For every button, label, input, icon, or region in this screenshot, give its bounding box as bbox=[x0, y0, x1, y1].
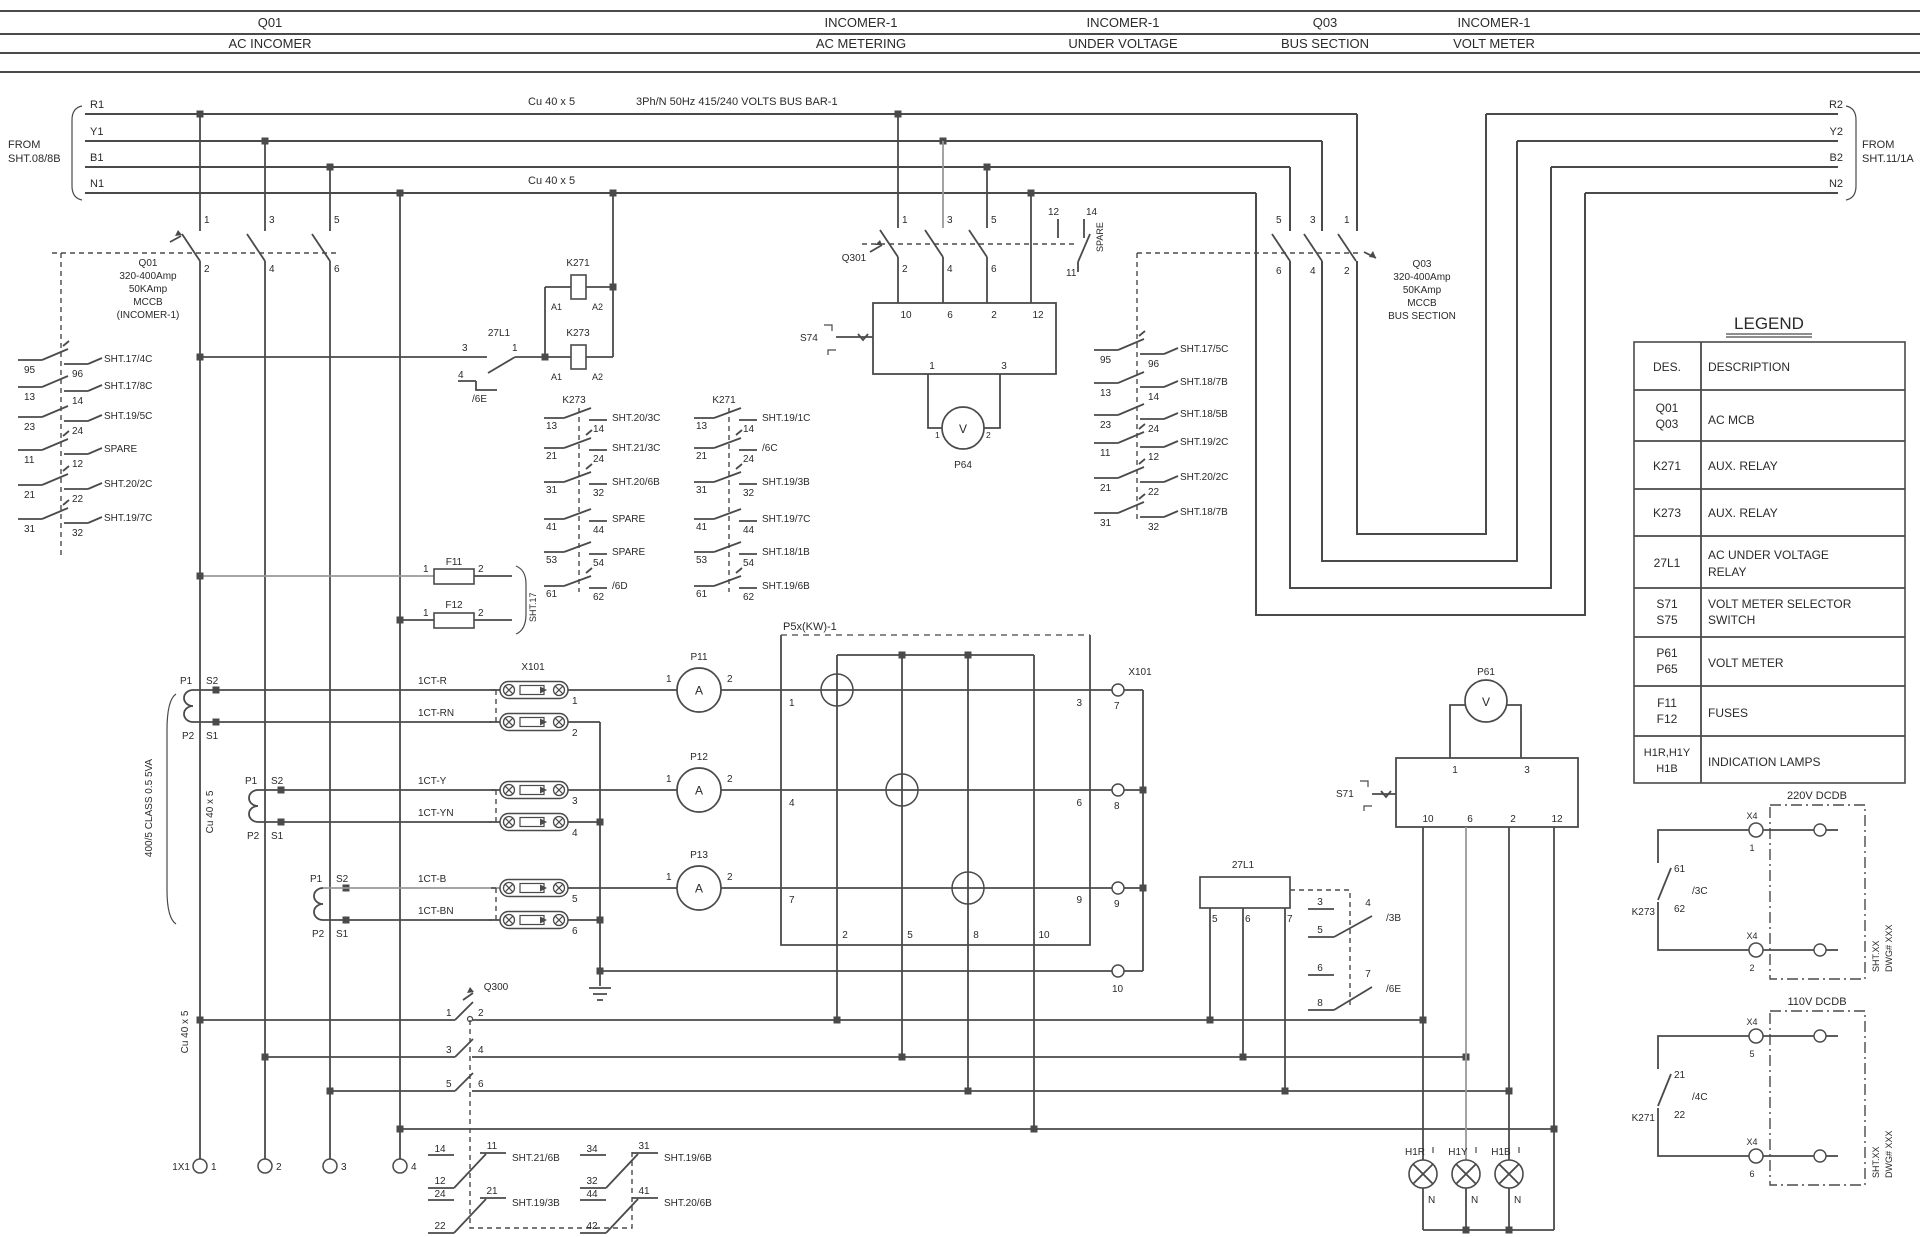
wire: P5x drop 5 bbox=[901, 655, 903, 1057]
svg-text:11: 11 bbox=[24, 455, 35, 466]
svg-text:3: 3 bbox=[1076, 698, 1082, 709]
wire: phase R through P5x bbox=[721, 689, 1112, 691]
svg-text:1CT-R: 1CT-R bbox=[418, 676, 447, 687]
svg-text:Q01: Q01 bbox=[1656, 401, 1679, 415]
svg-text:12: 12 bbox=[1048, 207, 1060, 218]
wire: bus Y2 bbox=[1517, 140, 1838, 142]
node: bus tap junction bbox=[984, 164, 991, 171]
svg-text:S71: S71 bbox=[1336, 789, 1354, 800]
svg-text:9: 9 bbox=[1114, 899, 1120, 910]
svg-text:27L1: 27L1 bbox=[1232, 860, 1255, 871]
svg-text:1: 1 bbox=[929, 361, 935, 372]
svg-text:1: 1 bbox=[572, 696, 578, 707]
svg-text:400/5 CLASS 0.5 5VA: 400/5 CLASS 0.5 5VA bbox=[144, 759, 155, 858]
svg-text:INCOMER-1: INCOMER-1 bbox=[825, 15, 898, 30]
node: bus junction bbox=[834, 1017, 841, 1024]
svg-text:32: 32 bbox=[743, 488, 755, 499]
svg-text:12: 12 bbox=[1551, 814, 1563, 825]
svg-text:X4: X4 bbox=[1746, 811, 1757, 821]
svg-text:24: 24 bbox=[72, 426, 84, 437]
breaker Q01 pole 1-2 blade bbox=[182, 234, 200, 261]
lamp H1R bbox=[1405, 1147, 1437, 1230]
svg-text:61: 61 bbox=[1674, 864, 1686, 875]
node: CT group bracket bbox=[167, 694, 176, 924]
switch: 27L1 undervoltage contact bbox=[458, 328, 518, 405]
node: bus junction bbox=[1207, 1017, 1214, 1024]
svg-text:BUS SECTION: BUS SECTION bbox=[1388, 311, 1456, 322]
svg-text:4: 4 bbox=[789, 798, 795, 809]
node: fuse output bracket to SHT.17 bbox=[516, 566, 526, 634]
svg-text:4: 4 bbox=[572, 828, 578, 839]
svg-text:24: 24 bbox=[434, 1189, 446, 1200]
svg-text:220V DCDB: 220V DCDB bbox=[1787, 790, 1847, 802]
wire: bus N2 bbox=[1585, 192, 1838, 194]
wire: phase Y through P5x bbox=[721, 789, 1112, 791]
svg-text:5: 5 bbox=[991, 215, 997, 226]
node: S71 handle bbox=[1336, 781, 1396, 811]
wire: N drop to S74 box bbox=[1030, 193, 1032, 303]
svg-text:P1: P1 bbox=[310, 874, 323, 885]
svg-text:/4C: /4C bbox=[1692, 1092, 1708, 1103]
svg-text:12: 12 bbox=[1032, 310, 1044, 321]
svg-text:SHT.17/8C: SHT.17/8C bbox=[104, 381, 152, 392]
wire: bottom bus Y bbox=[265, 1056, 1466, 1058]
svg-text:V: V bbox=[1482, 695, 1490, 709]
node: bus tap junction bbox=[262, 138, 269, 145]
svg-text:K271: K271 bbox=[1632, 1113, 1656, 1124]
svg-text:F11: F11 bbox=[446, 557, 463, 568]
switch: K271 contact 13-14 bbox=[694, 408, 810, 435]
svg-text:FUSES: FUSES bbox=[1708, 706, 1748, 720]
svg-text:P61: P61 bbox=[1477, 667, 1495, 678]
svg-text:FROM: FROM bbox=[1862, 139, 1894, 151]
wire: 1CT-Y secondary S2 bbox=[258, 789, 500, 791]
fuse F11 bbox=[423, 557, 512, 584]
node: bus junction bbox=[262, 1054, 269, 1061]
svg-text:13: 13 bbox=[1100, 388, 1112, 399]
svg-text:SHT.19/7C: SHT.19/7C bbox=[762, 514, 810, 525]
svg-text:1: 1 bbox=[423, 608, 429, 619]
terminal 1X1-3 bbox=[323, 1159, 347, 1173]
svg-text:6: 6 bbox=[1749, 1169, 1754, 1179]
wire: bottom bus R bbox=[200, 1019, 1423, 1021]
switch Q300 pole 1-2 bbox=[455, 1002, 473, 1020]
wire: 27L1 pin 6 bbox=[1242, 908, 1244, 1057]
svg-text:1: 1 bbox=[204, 215, 210, 226]
svg-text:MCCB: MCCB bbox=[1407, 298, 1437, 309]
svg-text:4: 4 bbox=[411, 1162, 417, 1173]
svg-text:14: 14 bbox=[72, 396, 84, 407]
svg-text:3: 3 bbox=[1524, 765, 1530, 776]
wire: Q301 pole drops bbox=[897, 114, 899, 228]
node: bus tap junction bbox=[895, 111, 902, 118]
svg-text:8: 8 bbox=[973, 930, 979, 941]
svg-text:SHT.17/4C: SHT.17/4C bbox=[104, 354, 152, 365]
wire: S71 pin10 drop bbox=[1422, 827, 1424, 1160]
svg-text:RELAY: RELAY bbox=[1708, 565, 1746, 579]
svg-text:/6D: /6D bbox=[612, 581, 628, 592]
svg-text:N2: N2 bbox=[1829, 178, 1843, 190]
svg-text:N: N bbox=[1471, 1195, 1478, 1206]
svg-text:10: 10 bbox=[1422, 814, 1434, 825]
svg-text:53: 53 bbox=[696, 555, 708, 566]
fuse terminal X101-4 bbox=[500, 814, 578, 840]
wire: CT/meter common bus bbox=[600, 970, 1143, 972]
svg-text:A2: A2 bbox=[592, 372, 603, 382]
svg-text:SHT.18/7B: SHT.18/7B bbox=[1180, 507, 1228, 518]
svg-text:2: 2 bbox=[986, 430, 991, 440]
svg-text:21: 21 bbox=[696, 451, 708, 462]
wire: bottom bus B bbox=[330, 1090, 1509, 1092]
svg-text:F12: F12 bbox=[1657, 712, 1678, 726]
svg-text:S71: S71 bbox=[1656, 597, 1678, 611]
svg-text:P64: P64 bbox=[954, 460, 972, 471]
svg-text:4: 4 bbox=[478, 1045, 484, 1056]
node: bus junction bbox=[1282, 1088, 1289, 1095]
wire: Q01 pole R drop bbox=[199, 114, 201, 231]
switch: Q300 aux contact 34-31 bbox=[580, 1141, 712, 1188]
wire: contact to X4-6 bbox=[1658, 1108, 1749, 1156]
svg-text:N: N bbox=[1428, 1195, 1435, 1206]
wire: phase B through P5x bbox=[721, 887, 1112, 889]
svg-text:2: 2 bbox=[991, 310, 997, 321]
switch: K273 contact 31-32 bbox=[544, 464, 660, 499]
node: legend row bbox=[1654, 548, 1829, 579]
node: FROM SHT.11/1A bbox=[1862, 139, 1914, 165]
wire: P5x drop 10 bbox=[1033, 655, 1035, 1129]
selector switch S74 box bbox=[873, 303, 1056, 374]
svg-text:R2: R2 bbox=[1829, 99, 1843, 111]
svg-text:K273: K273 bbox=[562, 395, 586, 406]
svg-text:6: 6 bbox=[1076, 798, 1082, 809]
svg-text:SPARE: SPARE bbox=[612, 547, 645, 558]
wire: N phase vertical bbox=[399, 193, 401, 1159]
svg-text:H1R: H1R bbox=[1405, 1147, 1425, 1158]
switch: K271 contact 53-54 bbox=[694, 542, 810, 569]
svg-text:SHT.17: SHT.17 bbox=[528, 592, 538, 622]
svg-text:8: 8 bbox=[1114, 801, 1120, 812]
svg-text:11: 11 bbox=[1066, 268, 1077, 279]
ammeter P13 bbox=[568, 850, 733, 910]
wire: X4-5 leads bbox=[1658, 1036, 1749, 1069]
svg-text:(INCOMER-1): (INCOMER-1) bbox=[117, 310, 180, 321]
svg-text:7: 7 bbox=[789, 895, 795, 906]
switch: Q01 aux contact 95-96 bbox=[18, 341, 152, 380]
svg-text:27L1: 27L1 bbox=[1654, 556, 1681, 570]
svg-text:32: 32 bbox=[72, 528, 84, 539]
svg-text:X101: X101 bbox=[1128, 667, 1152, 678]
svg-text:1: 1 bbox=[935, 430, 940, 440]
svg-text:7: 7 bbox=[1114, 701, 1120, 712]
svg-text:S1: S1 bbox=[206, 731, 219, 742]
svg-text:44: 44 bbox=[593, 525, 605, 536]
svg-text:95: 95 bbox=[24, 365, 36, 376]
node: legend row bbox=[1653, 459, 1778, 473]
svg-text:3: 3 bbox=[462, 343, 468, 354]
svg-text:N1: N1 bbox=[90, 178, 104, 190]
svg-text:32: 32 bbox=[586, 1176, 598, 1187]
node: Q01 rating label bbox=[117, 258, 180, 321]
wire: 1CT-R secondary S2 bbox=[193, 689, 500, 691]
switch: Q300 aux contact 44-41 bbox=[580, 1186, 712, 1233]
switch: Q01 aux contact 13-14 bbox=[18, 376, 152, 407]
svg-text:6: 6 bbox=[1276, 266, 1282, 277]
svg-text:5: 5 bbox=[1317, 925, 1323, 936]
svg-text:1CT-B: 1CT-B bbox=[418, 874, 447, 885]
node: bus junction bbox=[327, 1088, 334, 1095]
wire: Y phase vertical bbox=[264, 261, 266, 1159]
svg-text:22: 22 bbox=[72, 494, 84, 505]
fuse terminal X101-3 bbox=[500, 782, 578, 808]
fuse terminal X101-1 bbox=[500, 682, 578, 708]
switch: K271 contact 21-24 bbox=[694, 430, 778, 465]
svg-text:6: 6 bbox=[572, 926, 578, 937]
switch: K273 contact 21-24 bbox=[544, 430, 660, 465]
wire: X101 meter common vertical bbox=[1142, 690, 1144, 971]
wire: 1CT-Y secondary S1 bbox=[258, 821, 500, 823]
svg-text:VOLT METER: VOLT METER bbox=[1453, 36, 1535, 51]
terminal X101-8 bbox=[1112, 784, 1143, 812]
svg-text:S1: S1 bbox=[336, 929, 349, 940]
node: legend row bbox=[1656, 597, 1851, 627]
wire: R phase vertical bbox=[199, 261, 201, 1159]
svg-text:/3C: /3C bbox=[1692, 886, 1708, 897]
svg-text:62: 62 bbox=[1674, 904, 1686, 915]
switch: 27L1 contact 6-8/7 bbox=[1308, 963, 1401, 1010]
svg-text:10: 10 bbox=[1038, 930, 1050, 941]
svg-text:P2: P2 bbox=[182, 731, 195, 742]
svg-text:6: 6 bbox=[947, 310, 953, 321]
node: junction R/357 bbox=[197, 354, 204, 361]
svg-text:31: 31 bbox=[1100, 518, 1112, 529]
svg-text:12: 12 bbox=[72, 459, 84, 470]
breaker Q03 blades bbox=[1272, 234, 1290, 261]
svg-text:P65: P65 bbox=[1656, 662, 1678, 676]
svg-text:96: 96 bbox=[72, 369, 84, 380]
svg-text:6: 6 bbox=[1467, 814, 1473, 825]
svg-text:F11: F11 bbox=[1657, 696, 1677, 710]
svg-text:24: 24 bbox=[1148, 424, 1160, 435]
wire: 27L1 contact to K273 bbox=[515, 356, 571, 358]
svg-text:34: 34 bbox=[586, 1144, 598, 1155]
wire: R1 through Q03 pole 1 and U-turn to R2 bbox=[1356, 114, 1358, 231]
svg-text:SHT.19/1C: SHT.19/1C bbox=[762, 413, 810, 424]
svg-text:62: 62 bbox=[593, 592, 605, 603]
wire: P5x inner top link bbox=[837, 654, 1034, 656]
svg-text:14: 14 bbox=[1086, 207, 1098, 218]
node: legend row bbox=[1644, 747, 1821, 775]
svg-text:6: 6 bbox=[1317, 963, 1323, 974]
svg-text:LEGEND: LEGEND bbox=[1734, 314, 1804, 333]
svg-text:5: 5 bbox=[1212, 914, 1218, 925]
svg-text:INCOMER-1: INCOMER-1 bbox=[1087, 15, 1160, 30]
svg-text:/6E: /6E bbox=[1386, 984, 1401, 995]
svg-text:1CT-BN: 1CT-BN bbox=[418, 906, 454, 917]
svg-text:SHT.19/6B: SHT.19/6B bbox=[664, 1153, 712, 1164]
svg-text:Cu 40 x 5: Cu 40 x 5 bbox=[180, 1010, 191, 1053]
svg-text:2: 2 bbox=[1510, 814, 1516, 825]
terminal X101-7 bbox=[1112, 684, 1143, 712]
svg-text:1X1: 1X1 bbox=[172, 1162, 190, 1173]
svg-text:31: 31 bbox=[638, 1141, 650, 1152]
svg-text:FROM: FROM bbox=[8, 139, 40, 151]
wire: bus B1 bbox=[85, 166, 1290, 168]
svg-text:6: 6 bbox=[334, 264, 340, 275]
node: bus junction bbox=[1506, 1088, 1513, 1095]
wire: lamp neutral return bbox=[1423, 1229, 1554, 1231]
wire: S71 pin2 drop bbox=[1508, 827, 1510, 1160]
svg-text:320-400Amp: 320-400Amp bbox=[1393, 272, 1451, 283]
svg-text:A: A bbox=[695, 684, 703, 698]
svg-text:DES.: DES. bbox=[1653, 360, 1681, 374]
switch: K273 contact 61-62 bbox=[544, 568, 628, 603]
svg-text:14: 14 bbox=[434, 1144, 446, 1155]
svg-text:1: 1 bbox=[902, 215, 908, 226]
switch: K271 contact 31-32 bbox=[694, 464, 810, 499]
wire: 1CT-B secondary S1 bbox=[323, 919, 500, 921]
svg-text:P2: P2 bbox=[312, 929, 325, 940]
svg-text:Y1: Y1 bbox=[90, 126, 103, 138]
switch: K271 contact 21-22 bbox=[1632, 1070, 1708, 1124]
svg-text:SHT.20/3C: SHT.20/3C bbox=[612, 413, 660, 424]
svg-text:/6C: /6C bbox=[762, 443, 778, 454]
svg-text:4: 4 bbox=[458, 370, 464, 381]
svg-text:6: 6 bbox=[478, 1079, 484, 1090]
wire: 1CT-R secondary S1 bbox=[193, 721, 500, 723]
wire: 27L1 pin 5 bbox=[1209, 908, 1211, 1020]
svg-text:AC INCOMER: AC INCOMER bbox=[228, 36, 311, 51]
svg-text:SHT.XX: SHT.XX bbox=[1871, 1146, 1881, 1178]
wire: P5x drop 2 bbox=[836, 655, 838, 1020]
svg-text:SHT.20/6B: SHT.20/6B bbox=[664, 1198, 712, 1209]
svg-text:AC METERING: AC METERING bbox=[816, 36, 906, 51]
node: junction 613/287 bbox=[610, 284, 617, 291]
svg-text:53: 53 bbox=[546, 555, 558, 566]
terminal X4-2 bbox=[1746, 931, 1763, 973]
node: bus junction bbox=[965, 1088, 972, 1095]
wire: header rule 2 bbox=[0, 33, 1920, 35]
node: bus junction bbox=[1240, 1054, 1247, 1061]
switch: Q03 aux contact 21-22 bbox=[1094, 459, 1228, 498]
svg-text:5: 5 bbox=[907, 930, 913, 941]
wire: header rule 3 bbox=[0, 52, 1920, 54]
wire: Y1 through Q03 pole 3 and U-turn to Y2 bbox=[1321, 141, 1323, 231]
switch: Q03 aux contact 95-96 bbox=[1094, 331, 1228, 370]
node: P5x pin numbers bbox=[789, 698, 795, 906]
wire: X101 pair bracket bbox=[489, 690, 496, 722]
svg-text:SHT.18/1B: SHT.18/1B bbox=[762, 547, 810, 558]
switch: 27L1 contact 3-5/4 bbox=[1308, 897, 1401, 937]
wire: bus Y1 bbox=[85, 140, 1322, 142]
wire: S71 pin12 drop to N bbox=[1553, 827, 1555, 1230]
svg-text:61: 61 bbox=[696, 589, 708, 600]
svg-text:24: 24 bbox=[593, 454, 605, 465]
svg-text:12: 12 bbox=[434, 1176, 446, 1187]
svg-text:10: 10 bbox=[900, 310, 912, 321]
svg-text:SHT.17/5C: SHT.17/5C bbox=[1180, 344, 1228, 355]
svg-text:S2: S2 bbox=[206, 676, 219, 687]
switch: Q300 aux contact 24-21 bbox=[428, 1186, 560, 1233]
node: Q01 pole terminal numbers bbox=[204, 215, 340, 275]
svg-text:A: A bbox=[695, 784, 703, 798]
wire: R phase to 27L1 contact bbox=[200, 356, 487, 358]
svg-text:2: 2 bbox=[842, 930, 848, 941]
switch: Q03 aux contact 11-12 bbox=[1094, 424, 1228, 463]
switch: K273 contact 53-54 bbox=[544, 542, 645, 569]
svg-text:P12: P12 bbox=[690, 752, 708, 763]
wire: bus B2 bbox=[1551, 166, 1838, 168]
svg-text:H1Y: H1Y bbox=[1448, 1147, 1468, 1158]
node: bus junction bbox=[197, 1017, 204, 1024]
svg-text:23: 23 bbox=[24, 422, 36, 433]
relay coil K273 bbox=[551, 328, 613, 382]
svg-text:41: 41 bbox=[546, 522, 558, 533]
svg-text:6: 6 bbox=[1245, 914, 1251, 925]
breaker Q01 pole 5-6 blade bbox=[312, 234, 330, 261]
wire: N1 U-turn to N2 bbox=[1256, 193, 1585, 615]
terminal 1X1-4 bbox=[393, 1159, 417, 1173]
svg-text:H1R,H1Y: H1R,H1Y bbox=[1644, 747, 1691, 759]
svg-text:SHT.19/3B: SHT.19/3B bbox=[512, 1198, 560, 1209]
svg-text:X4: X4 bbox=[1746, 931, 1757, 941]
wire: K271/K273 left link bbox=[544, 287, 546, 357]
svg-text:13: 13 bbox=[24, 392, 36, 403]
svg-text:1: 1 bbox=[211, 1162, 217, 1173]
svg-text:SPARE: SPARE bbox=[612, 514, 645, 525]
svg-text:110V DCDB: 110V DCDB bbox=[1787, 996, 1846, 1008]
svg-text:1CT-YN: 1CT-YN bbox=[418, 808, 454, 819]
svg-text:31: 31 bbox=[696, 485, 708, 496]
svg-text:1: 1 bbox=[446, 1008, 452, 1019]
svg-text:32: 32 bbox=[593, 488, 605, 499]
svg-text:A2: A2 bbox=[592, 302, 603, 312]
svg-text:R1: R1 bbox=[90, 99, 104, 111]
wire: CT common vertical to earth bbox=[599, 722, 601, 986]
svg-text:1: 1 bbox=[666, 774, 672, 785]
svg-text:22: 22 bbox=[1148, 487, 1160, 498]
node: Q03 rating label bbox=[1388, 259, 1456, 322]
svg-text:VOLT METER: VOLT METER bbox=[1708, 656, 1784, 670]
terminal 1X1-2 bbox=[258, 1159, 282, 1173]
svg-text:1: 1 bbox=[1344, 215, 1350, 226]
svg-text:1: 1 bbox=[1749, 843, 1754, 853]
svg-text:AUX. RELAY: AUX. RELAY bbox=[1708, 459, 1778, 473]
svg-text:SHT.19/5C: SHT.19/5C bbox=[104, 411, 152, 422]
svg-text:13: 13 bbox=[546, 421, 558, 432]
svg-text:INCOMER-1: INCOMER-1 bbox=[1458, 15, 1531, 30]
wire: bus R2 bbox=[1486, 113, 1838, 115]
svg-text:44: 44 bbox=[743, 525, 755, 536]
transformer CT 1CT-Y bbox=[245, 776, 285, 842]
svg-text:3: 3 bbox=[341, 1162, 347, 1173]
svg-text:21: 21 bbox=[486, 1186, 498, 1197]
svg-text:SPARE: SPARE bbox=[104, 444, 137, 455]
svg-text:DESCRIPTION: DESCRIPTION bbox=[1708, 360, 1790, 374]
svg-text:11: 11 bbox=[487, 1141, 498, 1152]
svg-text:SHT.XX: SHT.XX bbox=[1871, 940, 1881, 972]
svg-text:3: 3 bbox=[446, 1045, 452, 1056]
svg-text:SHT.20/2C: SHT.20/2C bbox=[104, 479, 152, 490]
svg-text:6: 6 bbox=[991, 264, 997, 275]
svg-text:S2: S2 bbox=[336, 874, 349, 885]
node: Q03 terminal numbers bbox=[1276, 215, 1350, 277]
node: column titles row 1 bbox=[258, 15, 1531, 30]
wire: 27L1 linkage dashed bbox=[1290, 890, 1350, 1005]
wire: X101 pair bracket bbox=[489, 888, 496, 920]
node: Q301 terminal numbers bbox=[902, 215, 997, 275]
svg-text:SHT.21/3C: SHT.21/3C bbox=[612, 443, 660, 454]
node: legend table frame bbox=[1634, 342, 1905, 783]
